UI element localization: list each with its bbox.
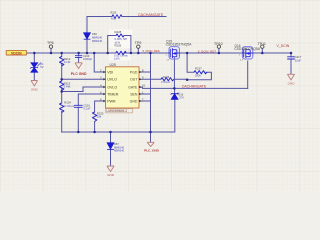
ground (Z1) (31, 81, 38, 86)
wire sense resistor parallel loop (108, 36, 131, 54)
svg-text:0.1uF: 0.1uF (83, 107, 90, 111)
pin marks Q16 (239, 55, 254, 62)
diode D56 (84, 33, 91, 39)
value labels Z1 (40, 62, 44, 69)
svg-text:±1%: ±1% (114, 57, 120, 61)
svg-text:GND: GND (288, 81, 296, 85)
wire UVLO tap (62, 78, 106, 80)
test point TP9 (135, 41, 142, 48)
svg-text:U25: U25 (110, 63, 116, 67)
svg-text:TP9: TP9 (135, 41, 142, 45)
resistor R227 (194, 71, 207, 74)
svg-text:5_DCIN_RES: 5_DCIN_RES (143, 49, 160, 53)
capacitor C216 (74, 105, 83, 107)
value labels Q16 (234, 44, 261, 51)
value labels R228 (115, 30, 128, 44)
value labels R226 (114, 44, 128, 61)
test point TP10 (214, 42, 223, 49)
wire bottom return rail (62, 100, 175, 132)
value labels R225 (97, 111, 104, 118)
svg-text:CSD18537NQ5A: CSD18537NQ5A (234, 47, 261, 51)
wire R227 loop (187, 53, 211, 80)
svg-text:LM5069MM-2: LM5069MM-2 (106, 109, 127, 113)
port VDCIN (6, 50, 26, 55)
svg-text:R227: R227 (195, 67, 202, 71)
svg-text:MBR140: MBR140 (114, 149, 125, 153)
svg-text:PGD: PGD (130, 70, 138, 74)
value labels R236 (161, 75, 171, 84)
svg-text:10: 10 (142, 83, 146, 87)
wire VDI branch (94, 53, 105, 72)
wire main input rail (27, 52, 292, 54)
wire top gate-supply branch (87, 17, 166, 54)
value label LM5069MM-2 (106, 109, 133, 113)
svg-text:59k: 59k (97, 115, 102, 119)
capacitor C217 (287, 57, 295, 59)
value labels D56 (92, 32, 103, 43)
value labels C216 (83, 103, 90, 110)
resistor R228 (116, 34, 124, 37)
svg-text:GND: GND (130, 99, 138, 103)
wire TIMER cap branch (78, 94, 105, 132)
svg-text:5.49k: 5.49k (64, 85, 71, 89)
svg-text:GND: GND (31, 87, 39, 91)
value labels D16 (177, 93, 179, 95)
pin numbers U25 right 8,9,10,1,7 (142, 68, 146, 101)
op-amp U25 (hot-swap controller IC body) (106, 67, 140, 108)
white label background of sense block (109, 30, 133, 49)
wire TP11 stub (261, 48, 263, 53)
wire TP6 stub (50, 48, 52, 53)
resistor R229 (112, 15, 122, 19)
svg-text:GND: GND (107, 173, 115, 177)
resistor R215 (60, 81, 64, 91)
svg-text:PWR: PWR (107, 99, 116, 103)
svg-text:0 Ohms: 0 Ohms (64, 104, 74, 108)
svg-text:14.3k: 14.3k (64, 60, 71, 64)
wire TVS branch (33, 53, 35, 80)
pin marks Q15 (166, 55, 182, 62)
TVS Z1 leader (38, 62, 41, 66)
svg-text:TP6: TP6 (47, 41, 54, 45)
pin arrowheads U25 (103, 71, 141, 102)
wire TP10 stub (218, 48, 220, 53)
ground PLC_GND (U25 GND pin) (147, 142, 154, 146)
diode D57 (107, 143, 114, 150)
value labels R224 (64, 101, 74, 108)
svg-text:5_DCIN_RET: 5_DCIN_RET (198, 49, 217, 53)
value labels R213 (64, 57, 71, 64)
svg-text:R228: R228 (115, 30, 122, 34)
svg-text:VDCIN: VDCIN (11, 51, 22, 55)
wire SEN/PGD/GND vertical (150, 53, 152, 142)
wire output cap branch (290, 53, 292, 74)
svg-text:TP11: TP11 (258, 42, 266, 46)
resistor R226 (116, 51, 126, 54)
zener D16 (171, 93, 178, 100)
svg-text:PLC GND: PLC GND (71, 72, 87, 76)
test point TP6 (47, 41, 54, 48)
value labels Q15 (166, 39, 193, 46)
svg-text:CSD18537NQ5A: CSD18537NQ5A (166, 43, 193, 47)
transistor Q15 (169, 47, 181, 59)
svg-text:OUT: OUT (130, 78, 138, 82)
svg-text:CACHANGATE: CACHANGATE (182, 85, 207, 89)
pin numbers U25 left 2,3,4,5,6 (100, 68, 102, 101)
svg-text:R226: R226 (115, 44, 122, 48)
svg-text:TP10: TP10 (214, 42, 223, 46)
svg-text:-27V: -27V (178, 96, 184, 100)
transistor Q16 (242, 47, 253, 59)
wire SEN pin 1 (139, 93, 151, 95)
wire Q16 gate stub (247, 61, 249, 88)
ground (D57) (107, 166, 114, 172)
wire UVLO/OVLO divider chain (61, 53, 63, 132)
value labels R227 (195, 67, 202, 78)
wire input cap branch (78, 53, 80, 63)
svg-text:VDI: VDI (107, 70, 113, 74)
ground PLC_GND (input cap) (75, 63, 82, 69)
test point TP11 (258, 42, 266, 49)
resistor R213 (60, 57, 64, 67)
resistor R236 (161, 78, 174, 81)
svg-text:MBR140: MBR140 (92, 39, 103, 43)
svg-text:UVLO: UVLO (107, 78, 117, 82)
svg-text:0 Ohms: 0 Ohms (161, 80, 171, 84)
svg-text:5V: 5V (40, 65, 43, 69)
wire GATE pin 10 row (139, 87, 248, 88)
svg-text:R236: R236 (163, 75, 170, 79)
wire zener top segment (174, 88, 176, 93)
svg-text:OVLO: OVLO (107, 85, 117, 89)
svg-text:SEN: SEN (130, 92, 138, 96)
svg-text:100k: 100k (195, 74, 202, 78)
wire Q15 gate stub (173, 58, 175, 89)
value labels R229 (111, 11, 117, 20)
resistor R225 (92, 112, 96, 122)
value labels R215 (64, 81, 71, 88)
value labels C217 (293, 54, 302, 62)
wire PWR resistor branch (95, 101, 106, 132)
svg-text:402k: 402k (111, 18, 117, 21)
wire PGD pin 8 (139, 71, 151, 73)
value labels C219 (83, 54, 92, 61)
resistor R224 (60, 103, 64, 113)
capacitor C219 (75, 56, 82, 58)
svg-text:TIMER: TIMER (107, 92, 119, 96)
svg-text:V_DCIN: V_DCIN (277, 44, 290, 48)
wire OVLO tap (62, 87, 106, 92)
wire TP9 stub (137, 48, 139, 53)
svg-text:PLC_GND: PLC_GND (144, 149, 160, 153)
svg-text:CACHANGATE: CACHANGATE (138, 13, 164, 17)
svg-text:22uF: 22uF (295, 59, 302, 63)
ground (C217) (287, 74, 294, 80)
svg-text:GATE: GATE (128, 85, 138, 89)
svg-text:1000pF: 1000pF (83, 57, 92, 61)
value labels D57 (114, 142, 125, 153)
wire D57 branch (110, 132, 112, 166)
wire OUT pin 9 row (139, 78, 187, 80)
svg-text:R229: R229 (111, 11, 117, 14)
wire GND pin 7 (139, 100, 151, 102)
TVS Z1 (30, 63, 38, 72)
